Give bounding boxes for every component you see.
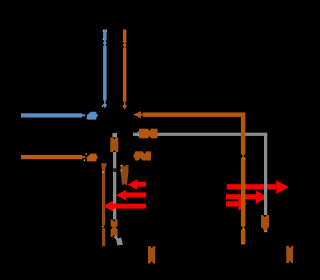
current arrow: red fan right #3 (short, y204) <box>226 198 247 211</box>
wire: gray vertical emitter path of Q1 <box>112 133 117 237</box>
wire: orange L-shaped wire from node A to right vertical drop <box>133 111 245 244</box>
current arrow: red fan left #C (bottom, y206) <box>103 201 146 212</box>
emitter arrowhead: gray diagonal foot at bottom of Q1 <box>115 236 123 245</box>
current arrow: orange horizontal (right) into node B <box>21 154 98 162</box>
current arrow: orange double-chevron on gray base wire (pointing left) <box>139 129 158 139</box>
current arrow: red fan right #1 (longest, y187) <box>227 180 289 194</box>
current arrow: orange vertical (down) into node A <box>122 30 127 110</box>
current arrow: orange fat chevron lower on gray emitter path (down) <box>111 220 118 238</box>
joint notch (dark) on gray emitter path at y170 <box>113 168 117 172</box>
current arrow: blue vertical (down) into node A <box>103 30 108 109</box>
current arrow: blue horizontal (right) into node A <box>21 112 98 120</box>
current arrow: orange double-chevron at base of Q2 region (pointing left) <box>133 151 151 160</box>
joint chevron on orange vertical wire at y156 <box>241 154 246 159</box>
joint chevron on orange vertical wire at y228 <box>241 226 246 231</box>
current arrow: orange double-chevron bottom right (down, clipped by edge) <box>286 246 293 263</box>
sparkle highlight pixels <box>84 30 245 244</box>
current arrow: red fan left #B (middle, y195) <box>116 190 146 201</box>
wire/current: brown vertical line #1 (left, with down arrowheads) <box>101 163 107 246</box>
current arrow: orange fat chevron on gray emitter path (down) <box>110 137 118 152</box>
wire: gray vertical drop at right (collector feed Q2) <box>264 133 267 233</box>
current arrow: orange fat chevron at bottom of right gray drop (down) <box>261 215 269 232</box>
current arrow: brown fat chevron #2 (down) at base bar of Q1 <box>121 165 129 185</box>
current arrow: orange double-chevron bottom center (down) <box>148 246 155 264</box>
current arrow: red fan left #A (top, y184) <box>128 179 147 190</box>
wire: gray horizontal base wire to Q2 <box>133 133 267 136</box>
current arrow: red fan right #2 (medium, y197) <box>226 190 267 204</box>
